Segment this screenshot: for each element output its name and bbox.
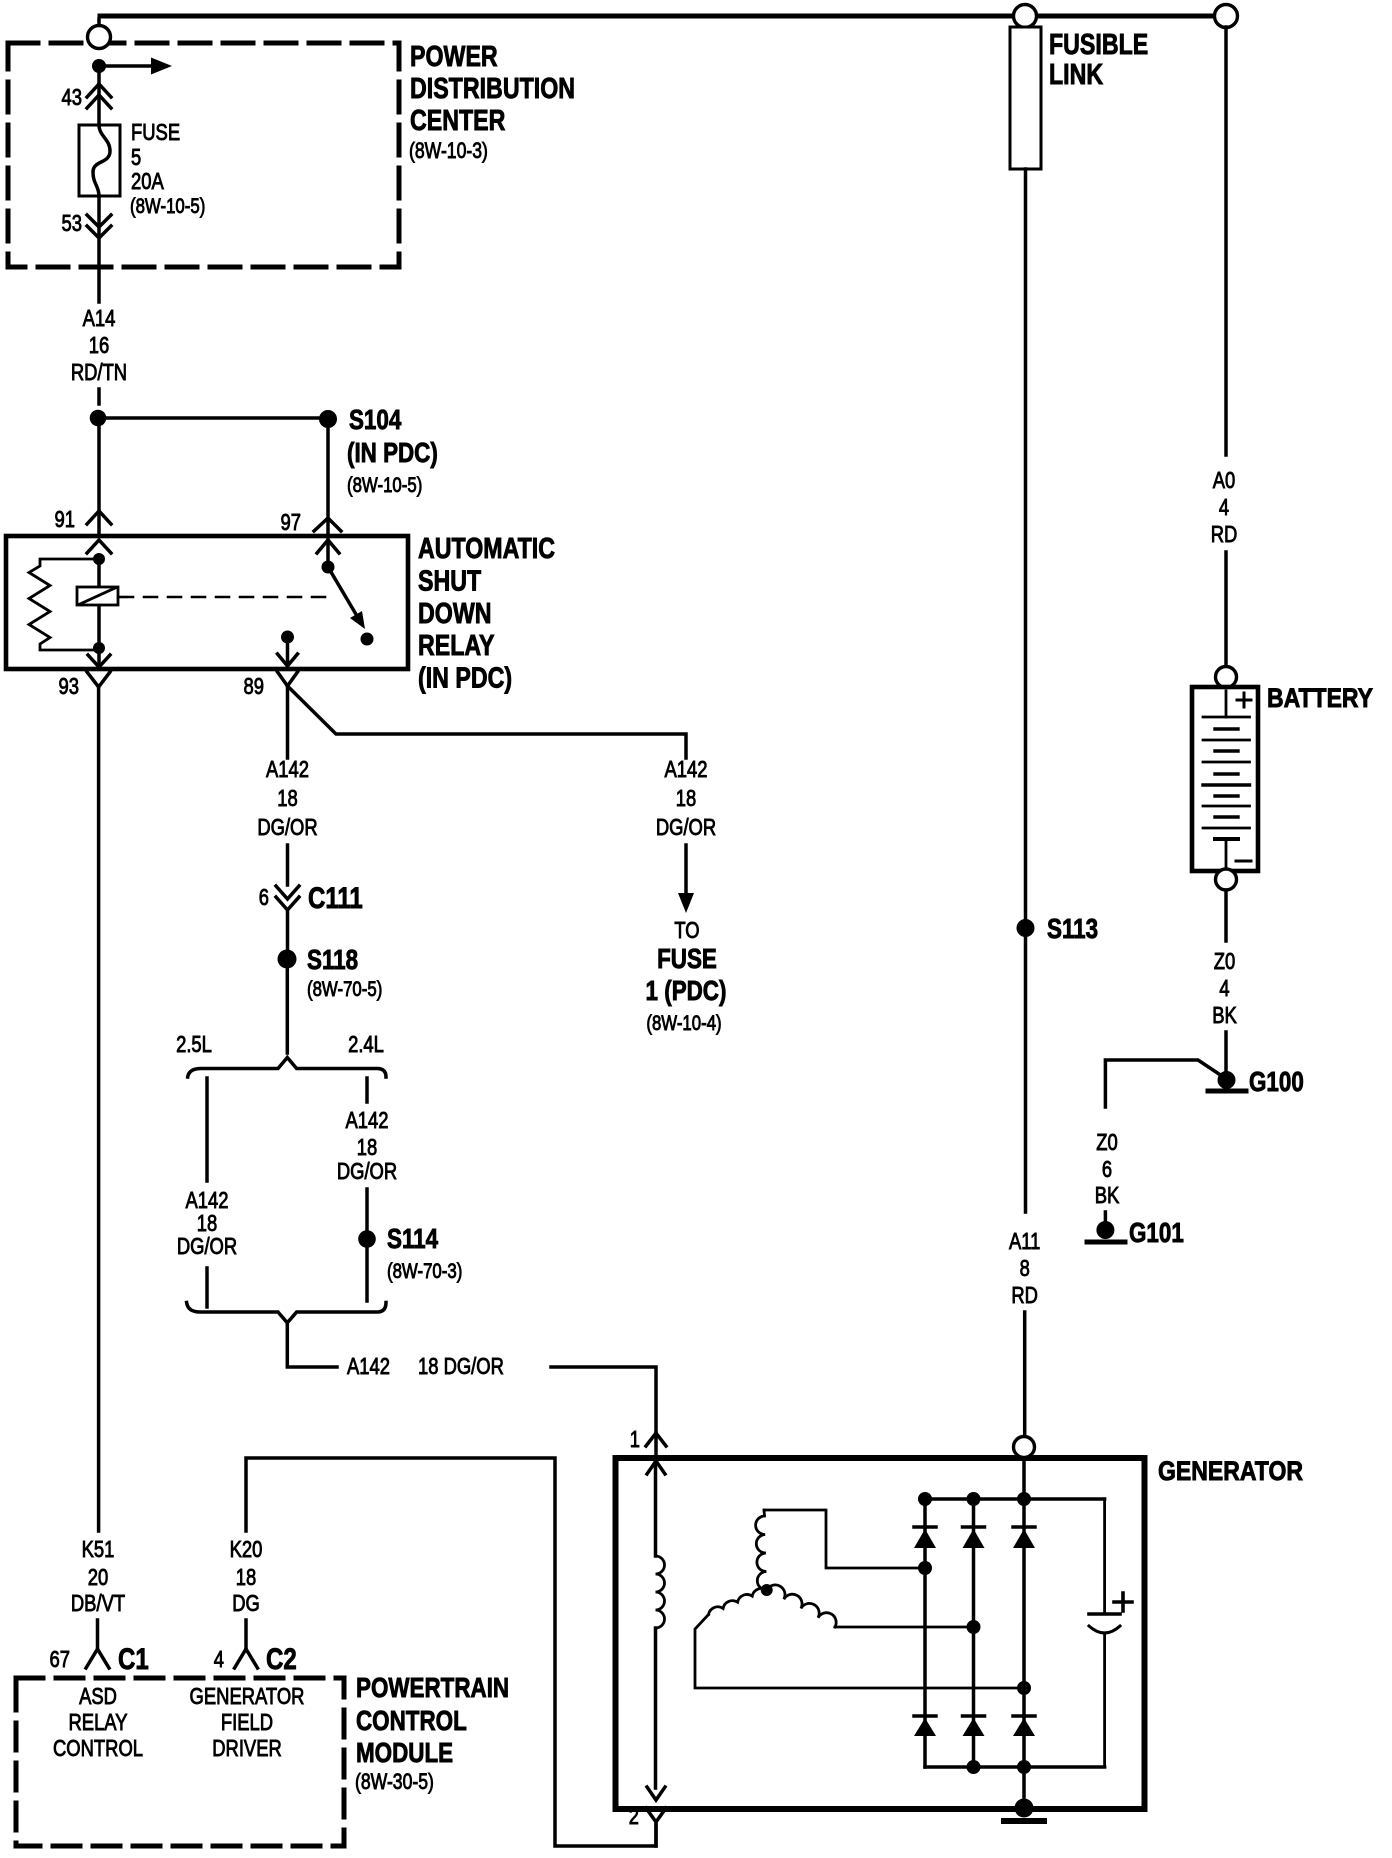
pin label 4 <box>214 1646 224 1672</box>
wire: A142 to generator pin 1 <box>551 1367 656 1433</box>
PDC title text <box>409 41 575 163</box>
engine option labels 2.5L / 2.4L <box>176 1031 384 1057</box>
pin 1 internal chevron <box>647 1461 665 1474</box>
node: junction on A14 <box>90 410 107 427</box>
generator field coil L1 <box>656 1556 665 1628</box>
wire: phase B tap <box>695 1615 1024 1689</box>
rectifier top bus <box>925 1497 1105 1501</box>
capacitor polarity + <box>1114 1593 1132 1611</box>
svg-text:Z0: Z0 <box>1214 948 1236 974</box>
pin 1 connector chevron <box>646 1433 666 1446</box>
ground G101 <box>1087 1221 1125 1242</box>
diode D6 <box>1013 1716 1035 1736</box>
svg-text:97: 97 <box>281 509 302 535</box>
svg-text:43: 43 <box>62 84 83 110</box>
svg-text:2.5L: 2.5L <box>176 1031 212 1057</box>
relay coil resistor (zigzag) <box>29 559 99 650</box>
stator phase B winding <box>709 1588 767 1614</box>
svg-text:RD: RD <box>1211 521 1238 547</box>
svg-text:A142: A142 <box>347 1353 390 1379</box>
connector C1 Y <box>86 1649 109 1668</box>
svg-text:18: 18 <box>236 1564 257 1590</box>
svg-text:MODULE: MODULE <box>356 1737 453 1768</box>
wire label A142 18 DG/OR (2.5L) <box>177 1187 237 1259</box>
wire: A0 to battery <box>1224 552 1228 666</box>
fusible link <box>1010 27 1041 169</box>
svg-text:BK: BK <box>1212 1002 1237 1028</box>
powertrain control module box <box>16 1678 344 1846</box>
pin 97 connector chevron <box>314 518 341 531</box>
pin label 1 <box>630 1426 640 1452</box>
wire: K20 to C2 <box>244 1620 248 1649</box>
wire: S113 to A11 label <box>1024 937 1028 1212</box>
svg-text:S114: S114 <box>387 1223 438 1254</box>
svg-text:2.4L: 2.4L <box>348 1031 384 1057</box>
diode D2 <box>963 1527 985 1548</box>
svg-text:RELAY: RELAY <box>418 630 495 662</box>
wire: A14 to S104 <box>98 416 318 420</box>
battery <box>1192 687 1258 871</box>
svg-text:2: 2 <box>629 1803 639 1829</box>
relay title text <box>418 533 555 695</box>
svg-text:G100: G100 <box>1249 1066 1304 1097</box>
wire: K51 ASD relay control <box>97 687 101 1531</box>
svg-text:K20: K20 <box>230 1536 263 1562</box>
battery terminal circle (-) <box>1216 869 1237 890</box>
pin 93 connector Y <box>87 672 110 687</box>
rectifier column wires <box>925 1457 1024 1808</box>
svg-text:(IN PDC): (IN PDC) <box>347 437 438 468</box>
relay pin 89 internal chevron <box>278 654 298 666</box>
wire: fuse output <box>97 196 101 302</box>
svg-text:93: 93 <box>59 673 80 699</box>
power distribution center box (8W-10-3) <box>8 43 399 267</box>
wire label Z0 6 BK <box>1095 1129 1120 1208</box>
wire: fuse feed <box>97 66 101 125</box>
svg-text:1: 1 <box>630 1426 640 1452</box>
generator box <box>616 1458 1145 1809</box>
splice S113 <box>1017 919 1035 937</box>
svg-text:4: 4 <box>1219 494 1229 520</box>
wire: arrow to fuse 1 <box>678 845 694 913</box>
battery terminal circle (+) <box>1216 667 1237 688</box>
svg-text:A0: A0 <box>1213 467 1236 493</box>
pin label 6 <box>259 884 269 910</box>
svg-text:DG/OR: DG/OR <box>177 1233 237 1259</box>
svg-text:(8W-70-3): (8W-70-3) <box>387 1260 462 1283</box>
relay pin 93 internal chevron <box>88 655 110 667</box>
wire label A142 18 DG/OR (right) <box>656 756 716 840</box>
wire: pin 89 branch to fuse 1 <box>288 686 687 758</box>
capacitor C1 (suppressor) branch <box>1103 1499 1106 1767</box>
svg-text:C1: C1 <box>118 1643 149 1676</box>
wire: merged A142 down and right <box>287 1323 337 1367</box>
svg-text:SHUT: SHUT <box>418 566 481 598</box>
wire: field winding return <box>654 1628 658 1788</box>
splice S118 <box>278 950 297 969</box>
svg-text:RELAY: RELAY <box>69 1709 128 1735</box>
diode D5 <box>963 1716 985 1736</box>
stator phase A winding <box>756 1510 767 1590</box>
node: switch contact <box>361 633 374 646</box>
wire: K51 to C1 <box>96 1620 100 1649</box>
wire: pin 89 down leg <box>286 686 290 758</box>
S118 label <box>307 944 382 1001</box>
svg-text:Z0: Z0 <box>1096 1129 1118 1155</box>
fuse 5 20A (in PDC) <box>79 125 120 196</box>
wire: A0 battery positive <box>1224 27 1228 455</box>
wire label A14 16 RD/TN <box>71 305 127 385</box>
wire: to C111 <box>286 845 290 885</box>
wire: S114 down <box>365 1248 369 1301</box>
svg-text:(8W-10-4): (8W-10-4) <box>646 1012 721 1035</box>
wire: pin 93 stem <box>97 648 101 667</box>
BATTERY label <box>1267 683 1373 713</box>
pin label 93 <box>59 673 80 699</box>
svg-text:DISTRIBUTION: DISTRIBUTION <box>410 73 575 105</box>
svg-text:1 (PDC): 1 (PDC) <box>646 975 727 1006</box>
svg-text:GENERATOR: GENERATOR <box>190 1683 305 1709</box>
wire label A142 18 DG/OR (left) <box>257 756 317 840</box>
svg-text:TO: TO <box>674 917 699 943</box>
battery polarity - <box>1236 860 1251 863</box>
svg-text:16: 16 <box>89 332 110 358</box>
svg-text:A142: A142 <box>665 756 708 782</box>
node: stator wye center <box>761 1584 773 1596</box>
svg-text:A11: A11 <box>1009 1228 1040 1254</box>
svg-text:DB/VT: DB/VT <box>71 1590 125 1616</box>
diode D1 <box>914 1527 936 1548</box>
pin label 53 <box>62 210 83 236</box>
relay coil symbol <box>77 587 118 605</box>
svg-text:5: 5 <box>131 144 141 170</box>
pin 91 connector chevron <box>87 511 111 524</box>
wire label A0 4 RD <box>1211 467 1238 547</box>
pin label 43 <box>62 84 83 110</box>
node: phase C tap <box>967 1620 981 1634</box>
node: relay coil bottom <box>93 642 105 654</box>
wire: battery negative <box>1224 890 1228 941</box>
C111 label <box>308 882 363 915</box>
PCM title text <box>355 1672 509 1794</box>
svg-text:91: 91 <box>55 506 76 532</box>
svg-text:(8W-10-5): (8W-10-5) <box>130 195 205 218</box>
wire: 2.5L branch upper <box>205 1078 209 1181</box>
connector terminal circle at generator output <box>1014 1437 1035 1458</box>
wire: fusible link to generator output <box>1024 169 1028 919</box>
svg-text:BK: BK <box>1095 1182 1120 1208</box>
pin label 89 <box>244 673 265 699</box>
svg-text:6: 6 <box>1102 1156 1112 1182</box>
node: bottom bus dots <box>967 1760 1032 1774</box>
svg-text:20A: 20A <box>131 168 164 194</box>
svg-text:67: 67 <box>50 1646 71 1672</box>
svg-text:G101: G101 <box>1129 1217 1184 1248</box>
wire: Z0 6 BK branch to G101 <box>1105 1060 1222 1107</box>
node: phase B tap <box>1017 1681 1031 1695</box>
connector C2 Y <box>235 1649 258 1668</box>
wire: A11 to generator <box>1023 1312 1027 1437</box>
svg-text:(8W-70-5): (8W-70-5) <box>307 978 382 1001</box>
GENERATOR label <box>1158 1456 1303 1486</box>
svg-text:RD/TN: RD/TN <box>71 359 127 385</box>
ground: generator case <box>1004 1799 1044 1822</box>
wire label A142 18 DG/OR (2.4L) <box>337 1107 397 1184</box>
svg-text:(8W-10-3): (8W-10-3) <box>409 138 488 163</box>
svg-text:FUSIBLE: FUSIBLE <box>1049 29 1148 61</box>
connector C111 chevrons <box>276 886 299 910</box>
S114 label <box>387 1223 462 1283</box>
splice S114 <box>358 1230 376 1248</box>
svg-text:CENTER: CENTER <box>410 105 505 137</box>
split brace (top) <box>188 1058 386 1078</box>
PCM function label: generator field driver <box>190 1683 305 1761</box>
C1 label <box>118 1643 149 1676</box>
G101 label <box>1129 1217 1184 1248</box>
wire: S104 to relay pin 97 <box>326 428 330 536</box>
S104 label <box>347 404 438 497</box>
stator phase C winding <box>767 1585 836 1627</box>
wire: 2.4L branch upper <box>365 1078 369 1102</box>
pin label 67 <box>50 1646 71 1672</box>
diode D4 <box>914 1716 936 1736</box>
svg-text:DOWN: DOWN <box>418 598 492 630</box>
node: relay coil top <box>93 553 105 565</box>
wire: 2.5L branch lower <box>205 1268 209 1307</box>
connector terminal circle at fusible link <box>1014 5 1037 28</box>
svg-text:FIELD: FIELD <box>221 1709 273 1735</box>
pin label 91 <box>55 506 76 532</box>
svg-text:FUSE: FUSE <box>657 943 717 974</box>
svg-text:4: 4 <box>214 1646 224 1672</box>
svg-text:A142: A142 <box>266 756 309 782</box>
svg-text:4: 4 <box>1219 975 1229 1001</box>
pin 2 internal chevron <box>647 1787 665 1800</box>
node: top bus dots <box>918 1492 1031 1506</box>
svg-text:(8W-30-5): (8W-30-5) <box>355 1769 434 1794</box>
wire: to G101 <box>1104 1212 1108 1221</box>
svg-text:18: 18 <box>357 1134 378 1160</box>
svg-text:CONTROL: CONTROL <box>53 1735 143 1761</box>
relay pin 97 internal chevron <box>317 540 339 553</box>
pin label 97 <box>281 509 302 535</box>
wire: Z0 to ground G100 <box>1224 1032 1228 1071</box>
wire: field winding feed <box>654 1461 658 1556</box>
connector terminal circle at battery feed <box>1215 5 1238 28</box>
wire: relay coil vertical <box>97 559 101 648</box>
svg-text:(8W-10-5): (8W-10-5) <box>347 474 422 497</box>
svg-text:(IN PDC): (IN PDC) <box>418 663 512 695</box>
svg-text:AUTOMATIC: AUTOMATIC <box>418 533 555 565</box>
relay actuation dashed link <box>120 596 327 599</box>
pin label 2 <box>629 1803 639 1829</box>
connector terminal circle at PDC feed <box>88 19 111 49</box>
svg-text:DG/OR: DG/OR <box>656 814 716 840</box>
pin 43 connector chevrons <box>87 84 111 108</box>
capacitor plates <box>1089 1614 1120 1633</box>
svg-text:CONTROL: CONTROL <box>356 1705 467 1736</box>
G100 label <box>1249 1066 1304 1097</box>
relay switch arm <box>331 572 365 629</box>
svg-text:6: 6 <box>259 884 269 910</box>
svg-text:89: 89 <box>244 673 265 699</box>
svg-text:DG/OR: DG/OR <box>257 814 317 840</box>
svg-text:18 DG/OR: 18 DG/OR <box>418 1353 504 1379</box>
node: phase A tap <box>918 1561 932 1575</box>
C2 label <box>266 1643 297 1676</box>
automatic shut down relay box <box>6 536 408 669</box>
svg-text:S113: S113 <box>1047 913 1098 944</box>
FUSIBLE LINK label <box>1049 29 1148 91</box>
svg-text:BATTERY: BATTERY <box>1267 683 1373 713</box>
wire: main battery feed bus (top) <box>100 14 1226 19</box>
svg-text:18: 18 <box>277 785 298 811</box>
node: splice junction below PDC terminal <box>92 59 106 73</box>
wire: phase C tap <box>835 1626 974 1629</box>
splice S104 (in PDC) <box>319 410 337 428</box>
relay pin 91 internal chevron <box>87 540 111 553</box>
rectifier bottom bus <box>925 1765 1105 1769</box>
pin 2 connector Y <box>646 1808 666 1822</box>
wire label K51 20 DB/VT <box>71 1536 125 1616</box>
svg-text:20: 20 <box>88 1564 109 1590</box>
wire: arrow tap to other circuits <box>106 58 172 75</box>
node: relay output pin 89 top <box>281 631 294 644</box>
wire label A11 8 RD <box>1009 1228 1040 1308</box>
svg-text:S104: S104 <box>349 404 402 435</box>
wire label Z0 4 BK <box>1212 948 1237 1028</box>
svg-text:DG/OR: DG/OR <box>337 1158 397 1184</box>
wire: pin 97 to switch pivot <box>326 537 330 561</box>
ground G100 <box>1208 1071 1246 1091</box>
pin 53 connector chevrons <box>87 215 111 238</box>
svg-text:C111: C111 <box>308 882 363 915</box>
wire: pin 2 stem <box>654 1822 658 1846</box>
svg-text:FUSE: FUSE <box>131 119 180 145</box>
svg-text:C2: C2 <box>266 1643 297 1676</box>
node: switch pivot <box>322 561 335 574</box>
wire: S118 to engine split <box>286 968 290 1053</box>
svg-text:8: 8 <box>1020 1255 1030 1281</box>
wire: C111 to S118 <box>286 910 290 950</box>
svg-text:DG: DG <box>232 1590 260 1616</box>
battery polarity + <box>1237 693 1251 707</box>
wire label A142 18 DG/OR (inline) <box>347 1353 504 1379</box>
wire: pin1 into generator <box>654 1433 658 1460</box>
wire: pin 89 stem <box>286 642 290 667</box>
svg-text:A14: A14 <box>83 305 116 331</box>
S113 label <box>1047 913 1098 944</box>
wire: left leg to relay pin 91 <box>97 425 101 536</box>
svg-text:POWER: POWER <box>410 41 498 73</box>
wire: segment below label <box>97 389 101 404</box>
destination label TO FUSE 1 (PDC) <box>646 917 727 1035</box>
pin 89 connector Y <box>278 672 298 686</box>
wire label K20 18 DG <box>230 1536 263 1616</box>
wire: K20 generator field driver route <box>246 1458 656 1846</box>
svg-text:53: 53 <box>62 210 83 236</box>
stator frame link <box>764 1510 920 1568</box>
svg-text:18: 18 <box>676 785 697 811</box>
svg-text:S118: S118 <box>307 944 358 975</box>
svg-text:POWERTRAIN: POWERTRAIN <box>356 1672 509 1703</box>
svg-text:RD: RD <box>1011 1282 1038 1308</box>
merge brace (bottom) <box>187 1303 386 1323</box>
svg-text:GENERATOR: GENERATOR <box>1158 1456 1303 1486</box>
svg-text:A142: A142 <box>346 1107 389 1133</box>
fuse value label <box>130 119 205 218</box>
svg-text:ASD: ASD <box>79 1683 117 1709</box>
svg-text:DRIVER: DRIVER <box>212 1735 282 1761</box>
svg-text:LINK: LINK <box>1049 59 1103 91</box>
diode D3 <box>1013 1527 1035 1548</box>
wire: 2.4L to S114 <box>365 1189 369 1230</box>
PCM function label: ASD relay control <box>53 1683 143 1761</box>
svg-text:K51: K51 <box>82 1536 115 1562</box>
